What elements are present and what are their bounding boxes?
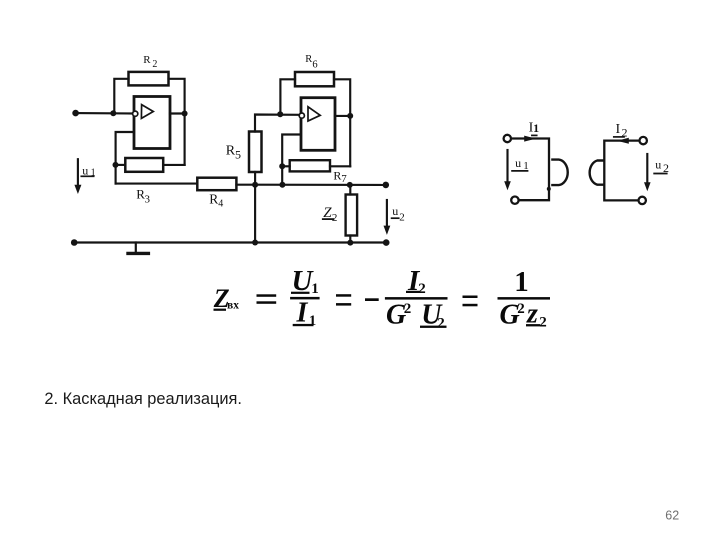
current I1 arrowhead [524, 136, 536, 142]
one-port N2 coupling bump [590, 161, 603, 185]
svg-text:R: R [143, 54, 151, 66]
underline u2 port [654, 173, 667, 175]
wire Z2 top lead [349, 185, 351, 195]
svg-text:R: R [333, 169, 341, 183]
formula equals 3 [463, 296, 478, 299]
wire U1 output stub [170, 112, 185, 114]
ground bus right terminal [383, 239, 390, 246]
ground symbol [128, 243, 148, 254]
node Z2 top junction [347, 182, 353, 188]
output terminal node right [383, 182, 390, 189]
svg-text:R: R [305, 54, 312, 65]
wire R4 to output terminal [236, 184, 385, 186]
svg-text:6: 6 [312, 60, 317, 71]
arrow u2 [384, 200, 391, 235]
svg-text:2: 2 [404, 301, 412, 317]
formula U1 underline [291, 292, 310, 294]
resistor R6 [295, 72, 334, 86]
wire R2 left leg [114, 79, 128, 113]
node R5 bottom junction [252, 182, 258, 188]
svg-text:1: 1 [533, 121, 539, 135]
resistor R2 [129, 72, 169, 86]
ground bus left terminal [71, 239, 78, 246]
label I1 [529, 121, 540, 136]
formula equals 2 [336, 294, 351, 297]
svg-text:2: 2 [332, 212, 338, 224]
wire input to op-amp U1 [76, 112, 133, 115]
wire R5 bottom to ground bus [254, 172, 256, 243]
svg-text:5: 5 [235, 147, 241, 161]
label u2 [392, 204, 404, 224]
svg-text:u: u [655, 157, 661, 171]
node R3 left junction [113, 162, 119, 168]
formula equals 1 [257, 294, 277, 297]
svg-text:2: 2 [418, 281, 426, 297]
node R7 left junction [279, 163, 285, 169]
formula fraction bar 1 [290, 297, 320, 300]
svg-text:вх: вх [227, 299, 239, 311]
current I2 arrowhead [617, 138, 629, 144]
op-amp U1 triangle [141, 105, 153, 119]
formula fraction bar 3 [498, 297, 551, 300]
node U2 output [347, 113, 353, 119]
svg-text:2. Каскадная реализация.: 2. Каскадная реализация. [44, 390, 242, 408]
svg-text:2: 2 [517, 301, 525, 317]
formula z2 underline [526, 324, 540, 326]
resistor R4 [197, 178, 236, 191]
svg-text:62: 62 [665, 508, 679, 522]
wire R6 right leg down to R7 [334, 79, 350, 166]
wire U2 output stub [335, 115, 350, 117]
label u2 port [655, 157, 669, 175]
svg-text:2: 2 [152, 59, 157, 70]
wire R5 top to U2 input [255, 115, 299, 132]
one-port N2 bottom terminal [639, 197, 646, 204]
svg-text:R: R [209, 192, 218, 207]
label R4 [209, 192, 223, 210]
op-amp U2 input circle [299, 113, 304, 118]
wire R7 left leg [282, 165, 290, 167]
svg-text:7: 7 [341, 173, 347, 185]
wire R3 left leg [116, 164, 126, 166]
input terminal node [72, 110, 79, 117]
svg-text:1: 1 [514, 266, 529, 298]
formula I2 underline [406, 291, 420, 293]
label I2 [616, 122, 628, 139]
formula Z underline [214, 309, 227, 311]
one-port N1 outline [511, 139, 549, 201]
formula minus sign [365, 298, 379, 301]
svg-text:4: 4 [218, 198, 223, 209]
one-port N2 top terminal [640, 137, 647, 144]
underline u1 port [512, 170, 527, 172]
formula U2 underline [420, 326, 447, 328]
op-amp U1 body [134, 97, 170, 149]
svg-text:2: 2 [399, 212, 405, 224]
formula I1 underline [293, 324, 314, 326]
node junction R6 and U2 input [277, 111, 283, 117]
arrow u1 port [504, 150, 511, 190]
wire R7 right leg [330, 165, 350, 167]
one-port N2 outline [604, 141, 639, 201]
label R5 [226, 144, 241, 162]
svg-text:1: 1 [311, 281, 319, 297]
svg-text:I: I [616, 122, 621, 137]
node Z2 ground junction [347, 240, 353, 246]
wire Z2 bottom lead [349, 236, 351, 243]
formula fraction bar 2 [385, 297, 448, 300]
ground bus wire [74, 241, 386, 243]
underline u1 [81, 175, 93, 177]
label R6 [305, 54, 317, 71]
resistor R3 [125, 158, 163, 172]
resistor R7 [290, 160, 330, 171]
label Z2 [323, 205, 337, 224]
svg-text:2: 2 [539, 314, 547, 330]
node U1 output [182, 111, 188, 117]
label R2 [143, 54, 157, 70]
underline u2 [392, 217, 399, 219]
node lower-left junction of U2 [279, 182, 285, 188]
label u1 port [515, 156, 529, 172]
svg-text:1: 1 [309, 313, 317, 329]
wire R2 right leg down to R3 [169, 79, 185, 165]
arrow u2 port [644, 154, 651, 191]
one-port N1 bottom terminal [511, 197, 518, 204]
underline Z2 [323, 218, 334, 220]
underline I1 [532, 134, 537, 136]
resistor R5 [249, 132, 262, 173]
wire U2 lower input down [282, 135, 299, 185]
impedance Z2 [346, 195, 358, 236]
underline I2 [614, 136, 624, 138]
arrow u1 [74, 159, 81, 194]
one-port N1 coupling bump [552, 160, 567, 186]
wire R3 right leg [163, 164, 184, 166]
wire U1 lower input down [116, 132, 134, 184]
op-amp U2 triangle [308, 107, 320, 121]
wire ground row to R4 [116, 183, 198, 185]
svg-text:3: 3 [145, 194, 151, 206]
svg-text:u: u [82, 163, 88, 177]
mark on N1 right edge [547, 187, 551, 191]
label u1 [82, 163, 95, 178]
node junction input R2 [110, 110, 116, 116]
one-port N1 top terminal [504, 135, 511, 142]
op-amp U2 body [301, 98, 335, 151]
svg-text:u: u [392, 204, 398, 218]
svg-text:u: u [515, 156, 521, 170]
op-amp U1 input circle [133, 111, 138, 116]
label R3 [136, 187, 150, 206]
label R7 [333, 169, 347, 185]
svg-text:2: 2 [437, 316, 445, 332]
node R5 ground junction [252, 240, 258, 246]
wire R6 left leg [280, 79, 295, 114]
